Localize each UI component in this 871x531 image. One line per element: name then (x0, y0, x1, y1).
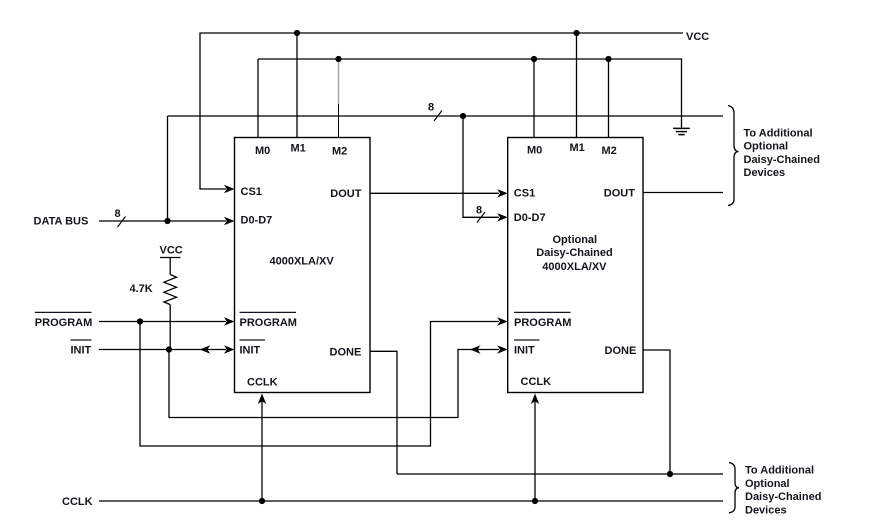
svg-text:4.7K: 4.7K (130, 283, 153, 295)
svg-text:PROGRAM: PROGRAM (35, 317, 92, 329)
svg-text:DATA BUS: DATA BUS (34, 216, 89, 228)
svg-text:CCLK: CCLK (521, 376, 552, 388)
svg-text:DOUT: DOUT (604, 187, 635, 199)
svg-text:PROGRAM: PROGRAM (240, 317, 297, 329)
svg-text:INIT: INIT (71, 345, 92, 357)
svg-text:VCC: VCC (160, 245, 183, 257)
svg-text:M2: M2 (602, 145, 617, 157)
svg-text:INIT: INIT (514, 345, 535, 357)
svg-text:Daisy-Chained: Daisy-Chained (536, 247, 612, 259)
svg-text:M1: M1 (570, 142, 585, 154)
svg-text:Optional: Optional (744, 141, 789, 153)
svg-text:M1: M1 (291, 142, 306, 154)
svg-text:To Additional: To Additional (745, 465, 814, 477)
svg-text:CCLK: CCLK (62, 496, 93, 508)
svg-text:M2: M2 (332, 146, 347, 158)
svg-text:To Additional: To Additional (744, 127, 813, 139)
svg-text:CS1: CS1 (514, 187, 535, 199)
svg-text:Optional: Optional (553, 234, 598, 246)
svg-text:CS1: CS1 (241, 186, 262, 198)
svg-text:VCC: VCC (686, 31, 709, 43)
svg-text:8: 8 (115, 208, 121, 220)
svg-text:4000XLA/XV: 4000XLA/XV (542, 261, 607, 273)
svg-text:Devices: Devices (745, 504, 787, 516)
svg-text:DONE: DONE (330, 346, 362, 358)
svg-text:DOUT: DOUT (330, 188, 361, 200)
svg-text:INIT: INIT (240, 345, 261, 357)
svg-text:8: 8 (476, 205, 482, 217)
svg-text:D0-D7: D0-D7 (514, 212, 546, 224)
svg-text:D0-D7: D0-D7 (241, 215, 273, 227)
svg-text:Daisy-Chained: Daisy-Chained (744, 154, 820, 166)
svg-text:M0: M0 (255, 145, 270, 157)
svg-text:Optional: Optional (745, 478, 790, 490)
svg-text:Daisy-Chained: Daisy-Chained (745, 491, 821, 503)
svg-text:8: 8 (428, 102, 434, 114)
svg-text:PROGRAM: PROGRAM (514, 317, 571, 329)
svg-text:DONE: DONE (605, 345, 637, 357)
svg-text:CCLK: CCLK (247, 377, 278, 389)
svg-text:Devices: Devices (744, 167, 786, 179)
svg-text:M0: M0 (527, 144, 542, 156)
svg-text:4000XLA/XV: 4000XLA/XV (270, 256, 335, 268)
